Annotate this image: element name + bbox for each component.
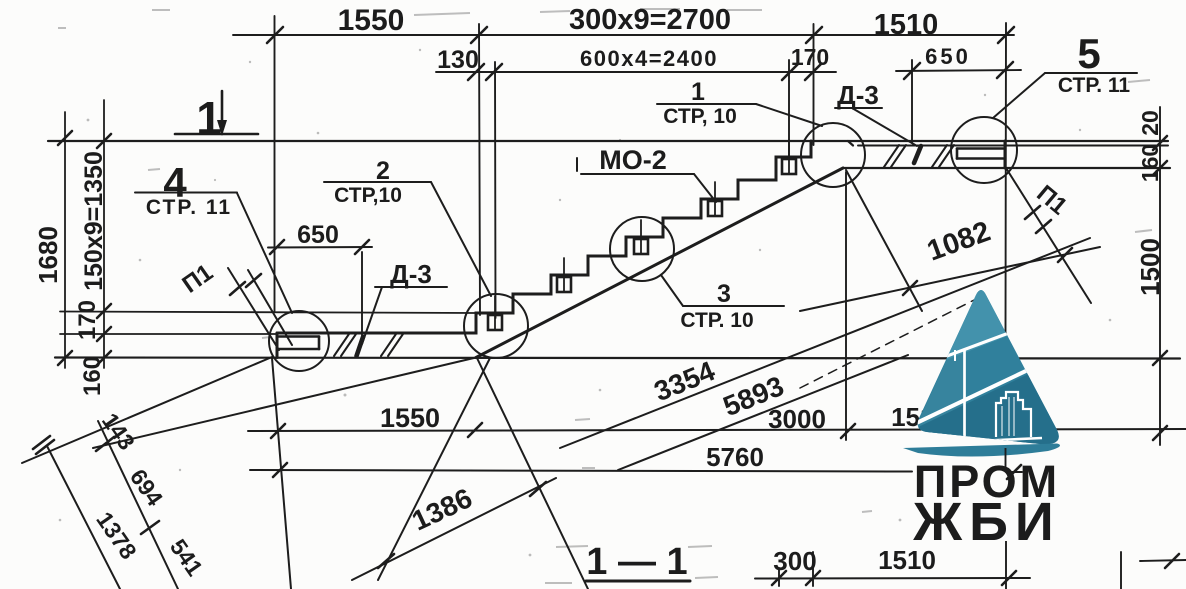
- stair steps profile: [471, 141, 811, 333]
- leader line 2 to circle B: [431, 182, 491, 296]
- tick 1386 left: [378, 554, 394, 568]
- dimension line 5760 y471: [250, 470, 912, 472]
- dim 650 line: [268, 246, 372, 249]
- anchor 1 square: [488, 315, 502, 330]
- right tick y143: [1153, 136, 1167, 150]
- tick 5760 left: [273, 463, 287, 477]
- svg-text:650: 650: [925, 44, 971, 69]
- svg-text:Д-3: Д-3: [837, 80, 879, 110]
- section mark arrowhead: [217, 120, 227, 136]
- svg-text:160: 160: [1137, 144, 1163, 182]
- leader line 3 to circle C: [661, 275, 683, 306]
- D-3 left underline: [375, 286, 447, 288]
- svg-text:170: 170: [791, 44, 829, 70]
- top landing hatch a2: [891, 145, 906, 167]
- tick row1 x275: [267, 27, 283, 43]
- svg-text:5760: 5760: [706, 442, 764, 472]
- tick left inner y358: [97, 351, 111, 365]
- arrow tick rail A end: [36, 440, 54, 454]
- svg-text:150x9=1350: 150x9=1350: [80, 151, 108, 291]
- tread1 level extension line: [60, 312, 476, 314]
- dimension line row2: [436, 71, 836, 73]
- extension line x1006 upper: [1005, 23, 1008, 334]
- top landing notch left: [956, 149, 959, 159]
- leader label 1 underline: [657, 103, 756, 105]
- 1082 extension right: [1006, 168, 1091, 303]
- oblique rail B: [93, 358, 476, 449]
- logo facet left half: [917, 284, 981, 436]
- bottom landing notch top: [279, 335, 319, 338]
- svg-text:5: 5: [1077, 30, 1100, 77]
- tick left outer y358: [58, 351, 72, 365]
- logo crane boom diagonal: [906, 349, 1072, 428]
- bottom landing notch bottom: [279, 348, 319, 351]
- extension line x275: [274, 16, 276, 312]
- leader label 5 underline: [1045, 72, 1137, 74]
- svg-text:160: 160: [79, 356, 106, 396]
- extension line x495: [494, 62, 497, 318]
- anchor 4 pin: [714, 182, 716, 216]
- 1082 extension left: [846, 170, 922, 311]
- bottom landing top extension line: [60, 333, 277, 335]
- svg-text:П1: П1: [1031, 180, 1072, 220]
- tick row1 x814: [806, 27, 822, 43]
- dimension line row1 top: [233, 34, 1014, 36]
- MO-2 small tick: [576, 158, 578, 171]
- bottom right stub vertical: [1120, 552, 1122, 589]
- svg-text:3: 3: [717, 280, 731, 308]
- 1082 tick right: [1058, 248, 1072, 262]
- svg-text:20: 20: [1137, 110, 1163, 136]
- bottom landing hatch a2: [341, 334, 356, 356]
- logo triangle: [918, 290, 1059, 444]
- tick 5760 right: [1007, 465, 1021, 479]
- tick x1009: [1002, 571, 1016, 585]
- logo crane jib post: [954, 350, 956, 361]
- right dim line x1160: [1159, 107, 1161, 445]
- left dim line outer x65: [64, 112, 66, 368]
- bottom landing hatch a1: [334, 334, 349, 356]
- svg-text:1082: 1082: [923, 215, 995, 267]
- svg-text:1550: 1550: [380, 403, 440, 433]
- tick x813: [806, 571, 820, 585]
- tick 650 left: [270, 240, 284, 254]
- dimension line 5760 right segment: [1007, 471, 1022, 473]
- vertical x1006 over logo gap: [1005, 448, 1007, 470]
- logo swoosh: [903, 444, 1060, 457]
- extension line x912: [911, 60, 913, 143]
- right tick y168: [1153, 161, 1167, 175]
- steep extension left from x476 corner: [378, 358, 490, 580]
- extension line x479: [479, 24, 480, 315]
- bottom landing slab top: [277, 332, 471, 335]
- svg-text:650: 650: [297, 221, 339, 249]
- top landing hatch a1: [884, 145, 899, 167]
- svg-text:694: 694: [125, 464, 168, 511]
- tick 1386 right: [530, 482, 546, 496]
- 1082 dimension line: [800, 247, 1100, 311]
- tick left inner y311: [97, 304, 111, 318]
- right tick y433: [1153, 426, 1167, 440]
- svg-text:1378: 1378: [91, 507, 142, 564]
- top landing notch top: [957, 147, 1003, 150]
- detail circle D: [801, 123, 865, 187]
- anchor 4 square: [708, 201, 722, 216]
- tick row1 x479: [471, 27, 487, 43]
- svg-text:СТР. 10: СТР. 10: [680, 309, 753, 332]
- D-3 left leader: [362, 287, 382, 344]
- P1 right tick b: [1036, 220, 1051, 233]
- vertical x1006 below logo: [1005, 541, 1007, 589]
- tick left inner y334: [97, 327, 111, 341]
- left dim line inner x104: [103, 100, 105, 368]
- logo base line: [966, 438, 1042, 442]
- tick row2 x494: [486, 64, 502, 80]
- steep extension right from x476 corner: [477, 358, 588, 589]
- tick row2 x476: [468, 64, 484, 80]
- bottom landing left end: [276, 333, 279, 358]
- scan smudge top center: [414, 9, 762, 15]
- anchor 3 pin: [640, 220, 642, 254]
- tick row1 x1006: [998, 27, 1014, 43]
- tick bottom x848: [841, 424, 855, 438]
- bottom landing notch right: [318, 337, 321, 350]
- svg-text:1 — 1: 1 — 1: [586, 541, 687, 583]
- 1082 tick left: [903, 281, 917, 295]
- svg-text:СТР. 11: СТР. 11: [146, 196, 232, 219]
- svg-text:1500: 1500: [1135, 238, 1165, 296]
- detail circle B: [464, 294, 528, 358]
- svg-text:1680: 1680: [33, 226, 63, 284]
- extension vertical x846: [845, 172, 847, 440]
- top landing hatch b1: [932, 145, 947, 167]
- leader line 4 to circle A: [237, 193, 292, 313]
- tick bottom x1006: [999, 423, 1013, 437]
- anchor 5 pin: [788, 140, 790, 174]
- tick row2 x813: [805, 64, 821, 80]
- scan smudge near 1-1: [545, 546, 718, 583]
- svg-text:600x4=2400: 600x4=2400: [580, 46, 718, 71]
- svg-text:300x9=2700: 300x9=2700: [569, 4, 731, 36]
- svg-text:СТР. 11: СТР. 11: [1058, 74, 1131, 97]
- detail circle C: [610, 217, 674, 281]
- bottom landing level long line: [55, 358, 1180, 359]
- leader label 3 underline: [683, 305, 784, 307]
- bottom right stub tick: [1165, 554, 1179, 568]
- tick row2 x790: [782, 64, 798, 80]
- anchor 5 square: [782, 159, 796, 174]
- svg-text:Д-3: Д-3: [390, 259, 432, 289]
- svg-text:ЖБИ: ЖБИ: [912, 492, 1060, 552]
- logo crane jib: [931, 327, 1025, 362]
- bottom landing hatch b2: [388, 334, 403, 356]
- P1 tick b: [246, 274, 261, 287]
- stair soffit line: [476, 168, 843, 358]
- top landing slab bottom line: [843, 167, 1170, 169]
- scan smudge left: [58, 10, 270, 338]
- dimension line row2 right (650): [896, 70, 1021, 71]
- MO-2 underline: [581, 173, 694, 175]
- section mark arrow line: [221, 91, 224, 130]
- top landing joint step: [848, 141, 853, 146]
- D-3 right arrow thick: [914, 146, 921, 163]
- logo facet light above jib: [928, 284, 1028, 367]
- flight axis dashed line: [800, 298, 978, 388]
- arrow tick rail A end b: [33, 436, 50, 449]
- steep dim line D0: [47, 446, 120, 589]
- tick 650 right: [355, 240, 369, 254]
- P1 right tick a: [1025, 206, 1040, 219]
- D-3 left arrow thick: [357, 337, 364, 356]
- svg-text:2: 2: [376, 157, 390, 185]
- logo building bars: [1002, 397, 1014, 436]
- svg-text:1: 1: [196, 92, 222, 144]
- svg-text:П1: П1: [177, 259, 218, 299]
- extension line x813: [813, 24, 815, 145]
- bottom right stub horizontal: [1140, 560, 1186, 561]
- tick left outer y138: [58, 131, 72, 145]
- tick bottom x278: [271, 424, 285, 438]
- svg-text:300: 300: [773, 546, 816, 576]
- anchor 2 pin: [563, 258, 565, 292]
- steep dim line D1: [98, 421, 178, 589]
- tick D1 x rail B: [96, 437, 114, 451]
- leader label 4: [135, 192, 237, 194]
- ext x813: [812, 552, 814, 586]
- svg-text:1510: 1510: [874, 9, 939, 41]
- leader line 1 to circle D: [756, 104, 822, 126]
- anchor 1 pin: [494, 296, 496, 330]
- D-3 right underline: [835, 107, 882, 109]
- P1 steep line b: [248, 270, 292, 345]
- top landing level line: [48, 140, 1168, 142]
- svg-text:1386: 1386: [407, 482, 477, 536]
- scan smudge top right: [1128, 80, 1152, 232]
- tick row2 x1005: [997, 62, 1013, 78]
- leader label 2 underline: [324, 181, 431, 183]
- leader line 5 to circle E: [993, 73, 1045, 118]
- svg-text:3000: 3000: [768, 404, 826, 434]
- section mark underline: [175, 133, 258, 136]
- oblique dim line 5893: [618, 355, 908, 470]
- MO-2 leader to anchor 4: [694, 174, 716, 202]
- D-3 right leader: [852, 108, 917, 146]
- bottom main dimension line y431: [248, 429, 1186, 431]
- oblique rail A: [22, 357, 272, 463]
- ext x779: [778, 568, 780, 586]
- detail circle E: [951, 117, 1017, 183]
- steep extension from x275 corner: [272, 358, 291, 589]
- section 1-1 underline: [586, 580, 690, 583]
- tick row2 x912: [904, 63, 920, 79]
- oblique dim line 1386: [352, 478, 556, 580]
- tick left inner y141: [97, 134, 111, 148]
- svg-text:СТР, 10: СТР, 10: [663, 105, 737, 128]
- anchor 3 square: [634, 239, 648, 254]
- svg-text:МО-2: МО-2: [599, 145, 667, 175]
- top landing finish line (20mm): [858, 145, 1168, 147]
- extension line x789: [788, 60, 790, 156]
- logo building: [996, 392, 1031, 437]
- anchor 2 square: [557, 277, 571, 292]
- right tick y358: [1153, 351, 1167, 365]
- tick bottom x475: [468, 423, 482, 437]
- scan smudge bottom: [575, 419, 872, 512]
- top landing right end: [1004, 141, 1007, 168]
- bottom landing hatch b1: [381, 334, 396, 356]
- tick D1 lower: [141, 521, 159, 534]
- tick x779: [772, 571, 786, 585]
- oblique dim line 3354: [560, 238, 1090, 448]
- svg-text:1550: 1550: [338, 4, 405, 37]
- svg-text:СТР,10: СТР,10: [334, 184, 402, 207]
- top landing hatch b2: [939, 145, 954, 167]
- P1 tick a: [230, 282, 245, 295]
- detail circle A: [269, 311, 329, 371]
- scan speckles: [87, 119, 90, 122]
- P1 steep line a: [228, 268, 279, 350]
- svg-text:130: 130: [437, 46, 479, 74]
- svg-text:170: 170: [74, 300, 101, 340]
- logo crane mast: [963, 349, 966, 441]
- top landing notch bottom: [957, 157, 1003, 160]
- bottom dim line 300-1510: [755, 577, 1030, 580]
- svg-text:1: 1: [691, 78, 705, 106]
- ext 650 right: [361, 252, 363, 342]
- logo facet dark below boom: [910, 351, 1076, 452]
